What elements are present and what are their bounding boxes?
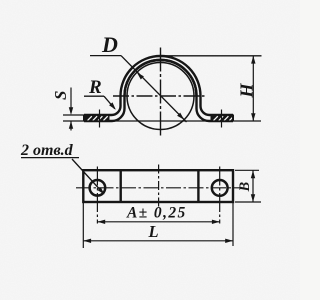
svg-text:D: D xyxy=(101,32,118,57)
svg-text:S: S xyxy=(51,91,70,100)
svg-text:2 отв.d: 2 отв.d xyxy=(20,142,74,159)
svg-text:R: R xyxy=(88,77,102,98)
svg-text:L: L xyxy=(148,222,159,241)
svg-text:A± 0,25: A± 0,25 xyxy=(126,205,187,222)
svg-text:H: H xyxy=(237,83,257,99)
svg-text:B: B xyxy=(237,182,253,193)
